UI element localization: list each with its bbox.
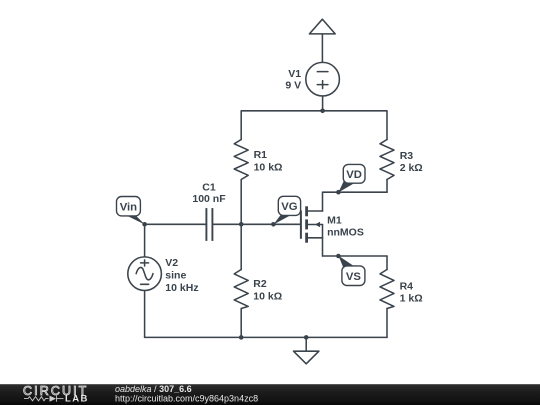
svg-text:10 kHz: 10 kHz bbox=[165, 282, 198, 294]
wire drain rail bbox=[323, 192, 388, 211]
svg-text:VD: VD bbox=[346, 169, 362, 181]
node R2-rail junction bbox=[239, 335, 244, 340]
svg-text:2 kΩ: 2 kΩ bbox=[400, 162, 423, 174]
transistor M1 nMOS bbox=[301, 206, 323, 256]
voltage source V1 bbox=[306, 62, 340, 110]
svg-text:R1: R1 bbox=[254, 149, 268, 161]
flag VG bbox=[274, 196, 301, 224]
capacitor C1 bbox=[145, 208, 300, 241]
svg-text:nnMOS: nnMOS bbox=[327, 227, 364, 239]
node Vin anchor bbox=[142, 222, 147, 227]
svg-text:R3: R3 bbox=[400, 150, 414, 162]
wire Vin to V2 bbox=[144, 224, 146, 257]
svg-text:M1: M1 bbox=[327, 215, 342, 227]
svg-text:VS: VS bbox=[346, 271, 362, 283]
svg-text:10 kΩ: 10 kΩ bbox=[254, 162, 283, 174]
svg-text:1 kΩ: 1 kΩ bbox=[400, 292, 423, 304]
svg-text:V1: V1 bbox=[288, 68, 301, 80]
node gate junction bbox=[239, 222, 244, 227]
wire source rail bbox=[323, 255, 388, 257]
logo resistor-diode squiggle bbox=[24, 396, 64, 402]
svg-text:C1: C1 bbox=[202, 181, 216, 193]
svg-text:100 nF: 100 nF bbox=[192, 193, 226, 205]
node VS anchor bbox=[336, 254, 341, 259]
node VG anchor bbox=[271, 222, 276, 227]
wire R1 to gate node bbox=[240, 180, 242, 225]
resistor R1 bbox=[234, 140, 248, 180]
node junction V1-rail bbox=[320, 109, 325, 114]
svg-text:R4: R4 bbox=[400, 280, 414, 292]
svg-text:R2: R2 bbox=[253, 278, 267, 290]
voltage source V2 sine bbox=[128, 257, 162, 337]
wire R3 to drain bbox=[386, 180, 388, 193]
svg-text:http://circuitlab.com/c9y864p3: http://circuitlab.com/c9y864p3n4zc8 bbox=[115, 393, 258, 403]
ground bbox=[294, 337, 319, 363]
power supply arrow VDD bbox=[309, 19, 335, 62]
flag Vin bbox=[117, 197, 145, 225]
wire top rail bbox=[241, 111, 387, 140]
svg-text:10 kΩ: 10 kΩ bbox=[253, 290, 282, 302]
svg-text:sine: sine bbox=[165, 270, 186, 282]
wire bottom rail bbox=[145, 336, 387, 338]
node ground junction bbox=[304, 335, 309, 340]
flag VD bbox=[339, 164, 366, 192]
svg-text:LAB: LAB bbox=[65, 394, 89, 405]
resistor R4 bbox=[380, 256, 394, 337]
svg-text:VG: VG bbox=[281, 201, 298, 213]
resistor R2 bbox=[234, 224, 248, 337]
svg-text:9 V: 9 V bbox=[285, 80, 301, 92]
svg-text:Vin: Vin bbox=[120, 201, 137, 213]
node VD anchor bbox=[336, 190, 341, 195]
resistor R3 bbox=[380, 140, 394, 180]
footer bar bbox=[0, 384, 540, 405]
svg-text:V2: V2 bbox=[165, 257, 178, 269]
flag VS bbox=[339, 256, 365, 286]
